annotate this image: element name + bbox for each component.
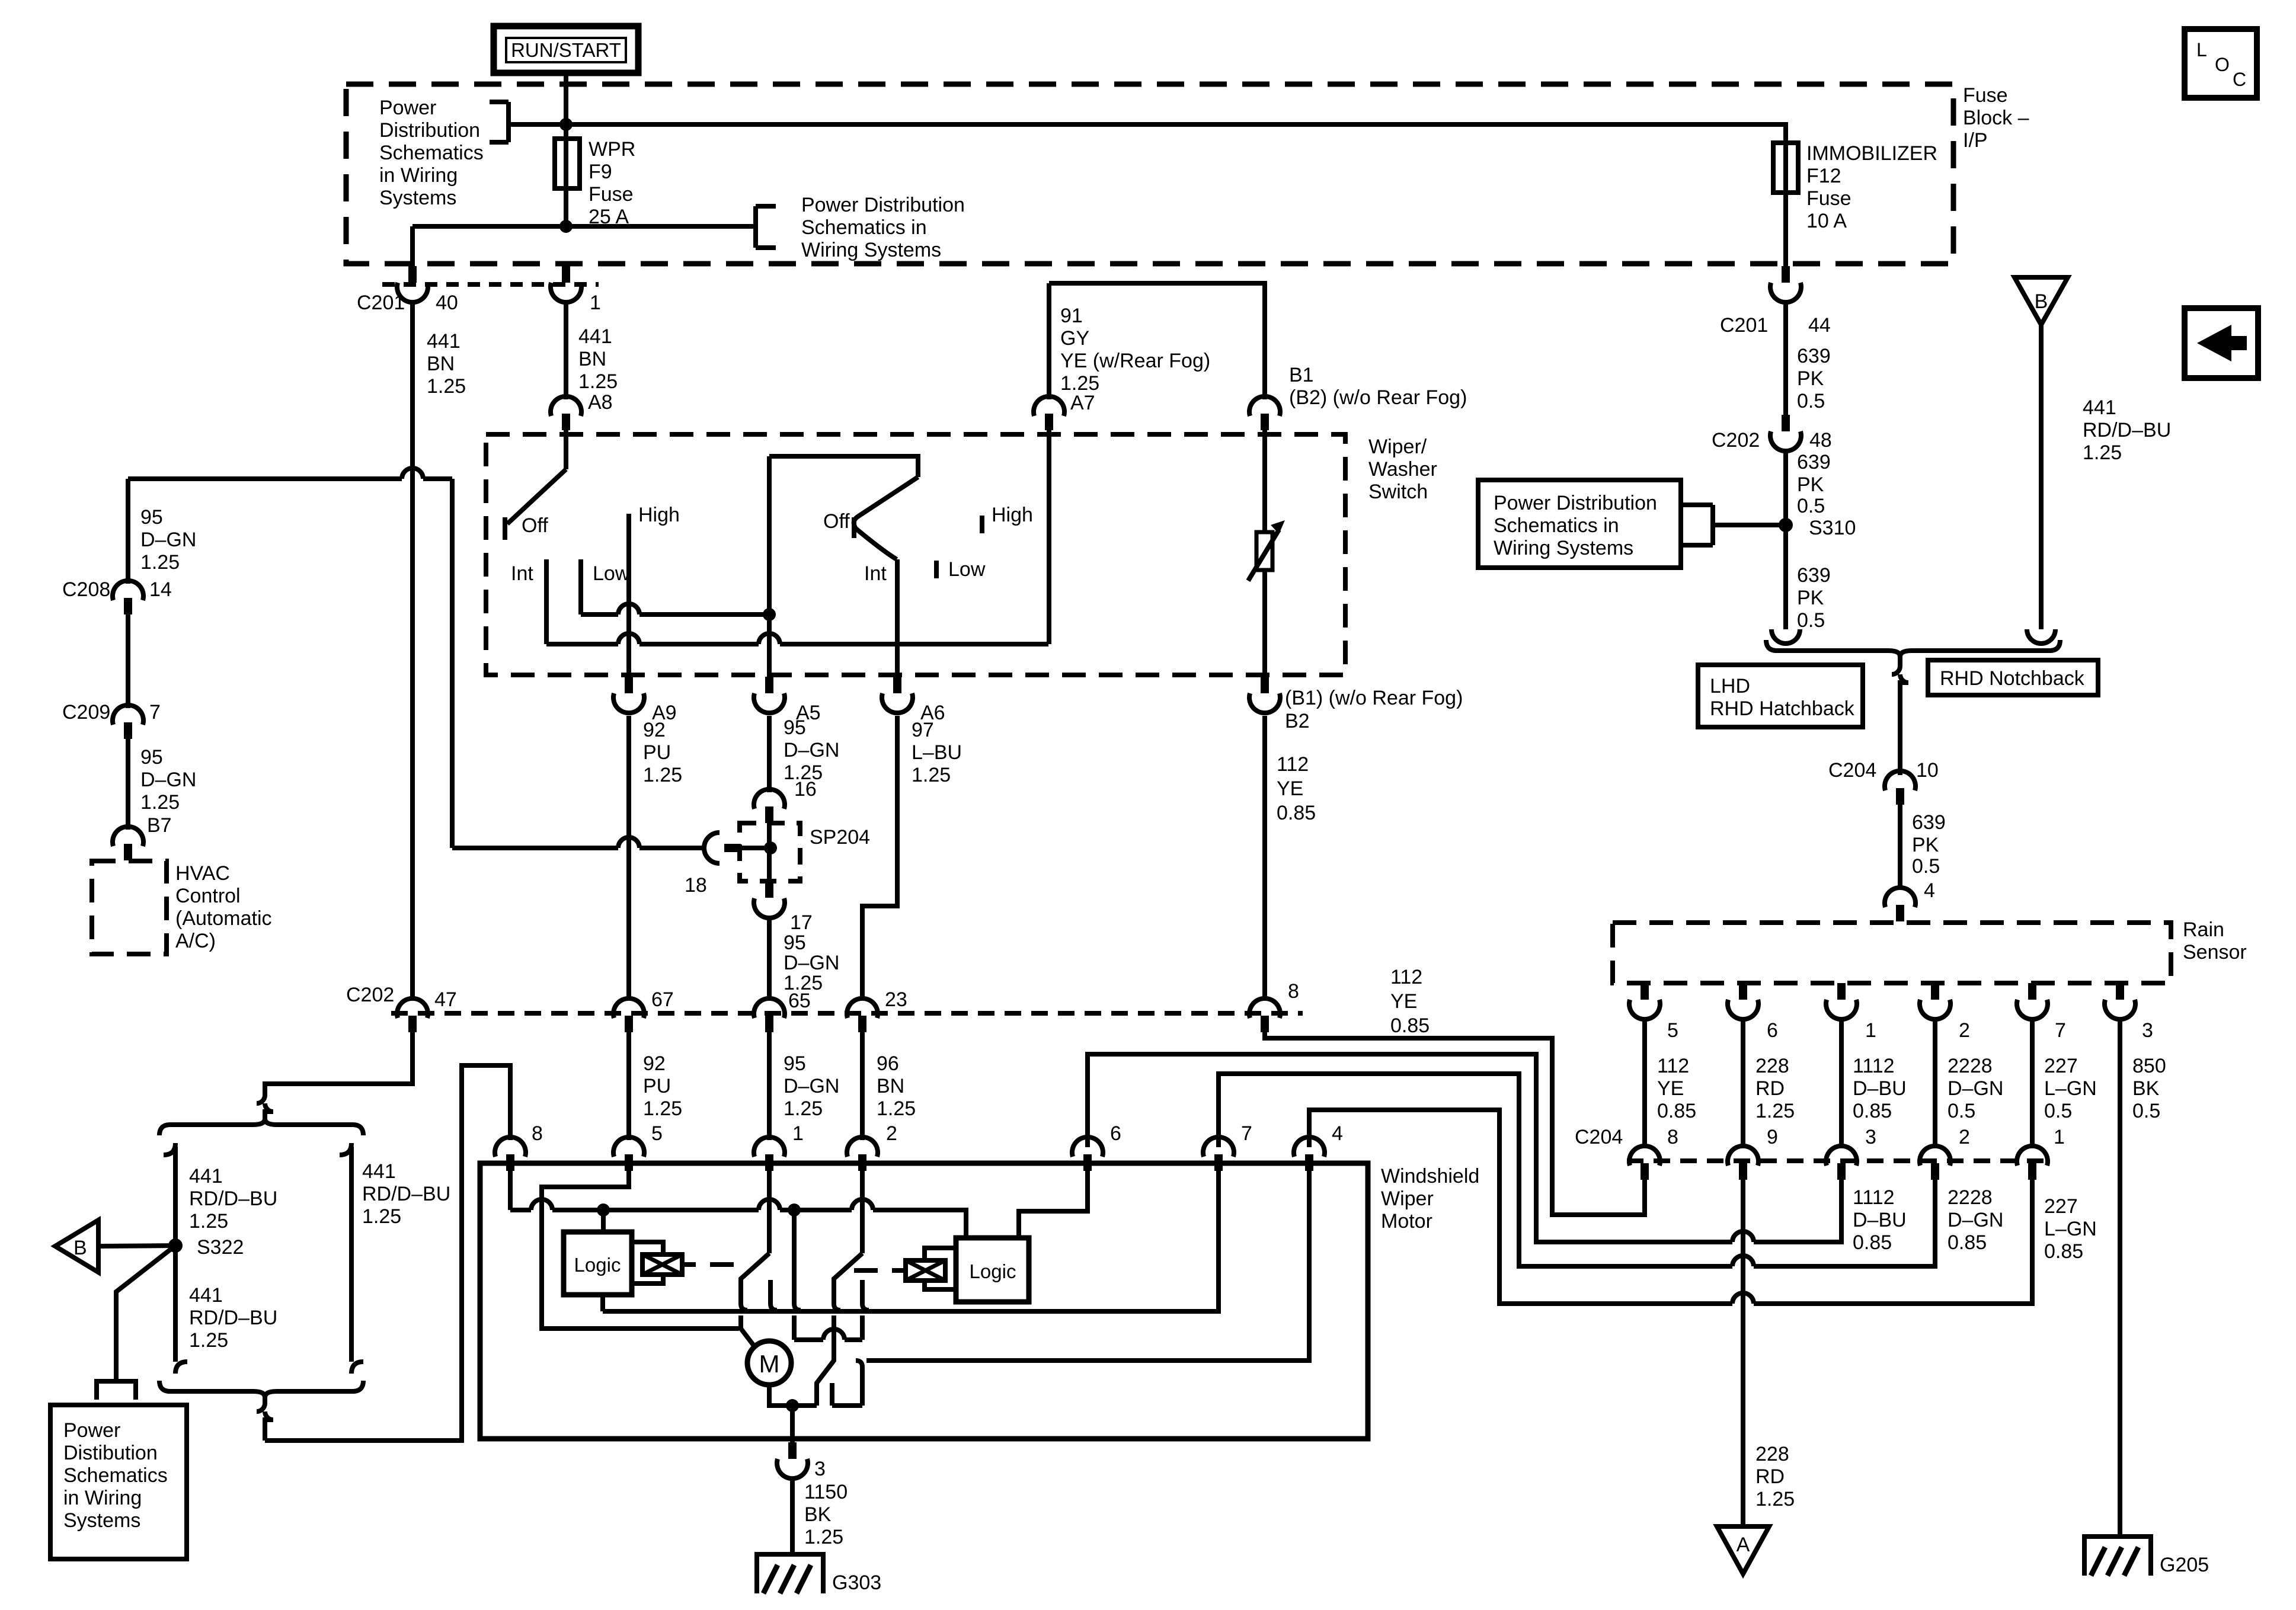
- fuse IMMOBILIZER F12: [1773, 143, 1798, 267]
- solenoid 1 valve: [642, 1254, 696, 1275]
- wire 2228: motor-7 to C204-2: [1219, 1074, 1935, 1266]
- merge curl left: [1771, 629, 1800, 644]
- svg-text:441: 441: [427, 330, 461, 353]
- hop line2 over High line: [618, 633, 639, 644]
- svg-text:228: 228: [1755, 1055, 1789, 1077]
- wire C204-10 to rain sensor 4: [1898, 805, 1902, 888]
- splice SP204 dashed box: [740, 823, 800, 881]
- wire B triangle down: [2039, 325, 2044, 629]
- svg-text:0.5: 0.5: [1797, 609, 1825, 632]
- svg-text:Distribution: Distribution: [379, 119, 480, 142]
- bundle wire right curl bottom: [351, 1362, 363, 1374]
- label 850 BK 0.5: [2132, 1055, 2166, 1122]
- connector C202-65: [754, 998, 785, 1032]
- wire A9 to C202-67: [626, 716, 631, 1000]
- connector C204-9: [1728, 1146, 1758, 1180]
- label 92 PU 1.25 (upper): [643, 719, 682, 786]
- svg-text:2: 2: [1959, 1019, 1970, 1042]
- label 96 BN 1.25: [877, 1052, 916, 1120]
- svg-text:L–GN: L–GN: [2044, 1077, 2097, 1100]
- wire blade1 to motor: [741, 1315, 754, 1346]
- svg-text:L: L: [2196, 39, 2207, 60]
- rheostat (variable resistor): [1248, 520, 1285, 581]
- label 1112 D-BU 0.85 (below row): [1853, 1186, 1907, 1254]
- label 2228 D-GN 0.85 (below row): [1948, 1186, 2003, 1254]
- svg-text:2228: 2228: [1948, 1186, 1993, 1209]
- power distribution reference box (S310): [1478, 480, 1681, 568]
- svg-text:Fuse: Fuse: [1963, 84, 2008, 107]
- junction dot line1 at A5 pole: [763, 608, 776, 621]
- svg-text:3: 3: [814, 1458, 826, 1480]
- connector C202-67: [613, 998, 644, 1032]
- connector C204-3: [1826, 1146, 1857, 1180]
- svg-text:95: 95: [784, 716, 806, 739]
- svg-text:A: A: [1737, 1534, 1750, 1556]
- wire fuse row horizontal to IMMOBILIZER: [509, 124, 1786, 143]
- merge curl right: [2027, 629, 2055, 644]
- contact Low (switch 2): [934, 561, 939, 578]
- wire 16 into SP204: [767, 823, 772, 881]
- park fixed stub 3: [830, 1383, 834, 1406]
- svg-text:227: 227: [2044, 1195, 2078, 1218]
- svg-text:0.85: 0.85: [1948, 1231, 1987, 1254]
- svg-text:Fuse: Fuse: [1806, 187, 1851, 210]
- svg-text:Washer: Washer: [1368, 458, 1437, 481]
- svg-text:2228: 2228: [1948, 1055, 1993, 1077]
- svg-text:1.25: 1.25: [1755, 1488, 1795, 1510]
- svg-text:RD: RD: [1755, 1465, 1785, 1488]
- svg-text:112: 112: [1657, 1055, 1689, 1077]
- wire sensor-3 to G205: [2118, 1017, 2122, 1537]
- connector row C201 (dotted): [382, 282, 599, 287]
- svg-text:Wiring Systems: Wiring Systems: [801, 239, 941, 261]
- svg-text:PK: PK: [1912, 834, 1939, 856]
- svg-text:850: 850: [2132, 1055, 2166, 1077]
- svg-text:1: 1: [590, 292, 601, 314]
- wire S322 diagonal drop: [116, 1246, 175, 1381]
- wire left column down to C208: [126, 479, 130, 584]
- svg-text:Motor: Motor: [1381, 1210, 1432, 1233]
- svg-text:23: 23: [885, 988, 907, 1011]
- wire A7 ubend to B1: [1049, 283, 1265, 644]
- wire sensor-2 to C204-2: [1933, 1017, 1937, 1147]
- windshield wiper motor box: [480, 1163, 1368, 1439]
- svg-text:1: 1: [792, 1122, 804, 1145]
- triangle B (left): [55, 1220, 98, 1272]
- svg-text:PK: PK: [1797, 367, 1824, 390]
- svg-text:17: 17: [790, 911, 813, 934]
- stub bus to Logic1: [601, 1210, 606, 1232]
- svg-text:228: 228: [1755, 1443, 1789, 1465]
- label Power Distribution Schematics in Wiring Systems (S310): [1494, 492, 1657, 559]
- svg-text:Distibution: Distibution: [63, 1442, 158, 1464]
- svg-text:7: 7: [2055, 1019, 2066, 1042]
- svg-text:1150: 1150: [804, 1481, 848, 1503]
- line A common wire: [603, 1171, 1219, 1311]
- breakout curl bottom: [257, 1397, 273, 1441]
- svg-text:BN: BN: [578, 348, 606, 370]
- svg-text:92: 92: [643, 719, 666, 741]
- wire C201-44 to C202-48: [1783, 300, 1788, 415]
- connector C201-44: [1770, 266, 1801, 302]
- junction dot bus-Logic1: [597, 1204, 610, 1217]
- label 441 RD/D-BU 1.25 (B): [2083, 396, 2171, 464]
- connector motor-5: [613, 1137, 644, 1171]
- svg-text:Systems: Systems: [379, 187, 456, 209]
- fuse WPR F9: [555, 124, 580, 226]
- RHD Notchback box: [1928, 660, 2098, 695]
- svg-text:G205: G205: [2160, 1554, 2209, 1576]
- svg-text:Fuse: Fuse: [589, 183, 634, 206]
- wire conn6 interior: [1019, 1171, 1088, 1238]
- svg-text:Off: Off: [522, 514, 548, 537]
- LOC box: [2185, 29, 2257, 98]
- label 228 RD 1.25: [1755, 1055, 1795, 1122]
- svg-text:A/C): A/C): [175, 930, 216, 952]
- wire B2 to C202-8: [1262, 716, 1267, 1000]
- svg-text:C209: C209: [62, 701, 110, 724]
- svg-text:S322: S322: [197, 1236, 244, 1259]
- harness brace (bottom): [159, 1381, 363, 1397]
- solenoid 1 plug arms: [632, 1242, 663, 1283]
- label 639 PK 0.5 (4): [1912, 811, 1946, 878]
- svg-text:RD: RD: [1755, 1077, 1785, 1100]
- svg-text:Power: Power: [379, 97, 436, 119]
- label 95 D-GN 1.25 (A5): [784, 716, 839, 784]
- svg-text:Low: Low: [593, 562, 630, 585]
- back-arrow box: [2185, 308, 2258, 378]
- svg-text:95: 95: [140, 746, 163, 769]
- wire conn2 into box: [860, 1171, 865, 1253]
- label 95 D-GN 1.25 (lower): [784, 1052, 839, 1120]
- wire 228 RD: C204-9 to A triangle: [1741, 1180, 1745, 1526]
- svg-text:Windshield: Windshield: [1381, 1165, 1479, 1188]
- svg-text:1.25: 1.25: [1755, 1100, 1795, 1122]
- hop 2228 over 228 wire: [1732, 1256, 1754, 1266]
- node RUN/START box: [494, 26, 638, 73]
- svg-text:A7: A7: [1070, 392, 1095, 414]
- connector 18 (sideways): [704, 833, 741, 863]
- connector sensor-5: [1629, 983, 1660, 1019]
- svg-text:2: 2: [886, 1122, 897, 1145]
- label 639 PK 0.5 (1): [1797, 345, 1831, 412]
- wire C209 to B7: [126, 739, 130, 830]
- solenoid 2 plug arms: [925, 1248, 956, 1289]
- half-plug to power distribution reference: [97, 1381, 136, 1400]
- svg-text:96: 96: [877, 1052, 899, 1075]
- wire C201-40 down to C202-47: [410, 300, 415, 1000]
- junction dot SP204: [764, 841, 777, 854]
- label 92 PU 1.25 (lower): [643, 1052, 682, 1120]
- svg-text:B: B: [2035, 290, 2048, 313]
- svg-text:M: M: [759, 1350, 780, 1378]
- junction dot ground: [786, 1399, 799, 1412]
- connector sensor-3: [2105, 983, 2135, 1019]
- junction dot at WPR top: [559, 118, 573, 131]
- hop line1 over High line: [618, 604, 639, 614]
- connector B2: [1249, 677, 1280, 713]
- wire sensor-5 to C204-8: [1642, 1017, 1647, 1147]
- contact Off (switch 1): [503, 517, 507, 540]
- label 227 L-GN 0.5: [2044, 1055, 2097, 1122]
- svg-text:0.85: 0.85: [1390, 1014, 1430, 1037]
- svg-text:O: O: [2215, 54, 2230, 75]
- wire branch y=382 to C201-40 and right bracket: [412, 226, 756, 267]
- dashed link 1: [710, 1262, 734, 1267]
- park link horizontal: [794, 1337, 862, 1342]
- ground G205: [2084, 1537, 2209, 1576]
- svg-text:Power: Power: [63, 1419, 120, 1442]
- junction dot bus-riser: [788, 1204, 801, 1217]
- breakout curl top: [257, 1095, 273, 1119]
- svg-text:Low: Low: [948, 558, 986, 581]
- connector motor-1: [754, 1137, 785, 1171]
- wire C208 to C209: [126, 614, 130, 708]
- svg-text:D–BU: D–BU: [1853, 1209, 1907, 1231]
- switch 2 blade (washer/int): [854, 477, 918, 559]
- svg-text:F9: F9: [589, 161, 612, 183]
- svg-text:0.85: 0.85: [1657, 1100, 1696, 1122]
- svg-text:Control: Control: [175, 885, 241, 907]
- svg-text:Block –: Block –: [1963, 107, 2029, 129]
- svg-text:High: High: [992, 504, 1033, 526]
- label IMMOBILIZER F12 Fuse 10 A: [1806, 142, 1937, 232]
- contact High / A9 line: [626, 514, 631, 680]
- svg-text:Schematics in: Schematics in: [801, 216, 927, 239]
- svg-text:IMMOBILIZER: IMMOBILIZER: [1806, 142, 1937, 165]
- svg-text:95: 95: [784, 932, 806, 954]
- wire 67 to motor 5: [626, 1032, 631, 1140]
- svg-text:HVAC: HVAC: [175, 862, 230, 885]
- connector C204-8: [1629, 1146, 1660, 1180]
- wire 23 to motor 2: [860, 1032, 865, 1140]
- hop bus over conn5 reroute: [531, 1199, 552, 1210]
- contact Off (switch 2): [852, 517, 856, 538]
- label 441 RD/D-BU 1.25 (left): [189, 1165, 277, 1233]
- svg-text:639: 639: [1797, 564, 1831, 587]
- harness brace (top): [159, 1119, 363, 1135]
- connector A9: [613, 677, 644, 713]
- bracket for mid reference: [756, 206, 776, 248]
- label 95 D-GN 1.25 (2): [140, 746, 196, 814]
- svg-text:Schematics: Schematics: [63, 1464, 168, 1487]
- svg-text:F12: F12: [1806, 165, 1841, 187]
- Logic box 2: [956, 1238, 1029, 1302]
- svg-text:(Automatic: (Automatic: [175, 907, 272, 930]
- svg-text:112: 112: [1390, 966, 1422, 988]
- svg-text:7: 7: [1241, 1122, 1252, 1145]
- svg-text:112: 112: [1277, 753, 1309, 776]
- svg-text:D–GN: D–GN: [784, 739, 839, 761]
- connector A8: [551, 396, 581, 430]
- svg-text:441: 441: [578, 325, 612, 348]
- bundle wire right curl top: [340, 1143, 351, 1155]
- wire bracket to S310: [1713, 523, 1786, 527]
- hop 18-wire over A9 wire: [618, 837, 639, 848]
- wire conn5 reroute to motor: [542, 1171, 739, 1329]
- svg-text:8: 8: [532, 1122, 543, 1145]
- svg-text:D–GN: D–GN: [140, 529, 196, 551]
- svg-text:639: 639: [1797, 451, 1831, 473]
- svg-text:WPR: WPR: [589, 138, 635, 161]
- label Power Distribution Schematics in Wiring Systems (top-left): [379, 97, 484, 209]
- solenoid 2 valve: [892, 1260, 945, 1281]
- svg-text:1.25: 1.25: [140, 551, 180, 574]
- connector C204-10: [1885, 771, 1916, 805]
- svg-text:8: 8: [1288, 980, 1299, 1003]
- connector C201-40: [397, 266, 428, 302]
- svg-text:in Wiring: in Wiring: [63, 1487, 142, 1509]
- svg-text:6: 6: [1110, 1122, 1121, 1145]
- svg-text:B: B: [73, 1237, 87, 1259]
- svg-text:1.25: 1.25: [784, 1097, 823, 1120]
- connector B7: [113, 827, 143, 860]
- wire 18 branch horizontal: [452, 846, 706, 850]
- wire conn8 to bus: [508, 1171, 513, 1210]
- wire Int to A7 leg (line2): [546, 642, 1048, 646]
- svg-text:RD/D–BU: RD/D–BU: [362, 1183, 450, 1205]
- connector motor-3 (ground): [777, 1442, 808, 1478]
- dashed link 2: [854, 1268, 878, 1273]
- contact Int / A6 line: [895, 559, 900, 680]
- contact Int (switch 1): [544, 559, 549, 644]
- svg-text:227: 227: [2044, 1055, 2078, 1077]
- svg-text:9: 9: [1767, 1126, 1778, 1148]
- label 112 YE 0.85 (B2): [1277, 753, 1316, 824]
- wire A5 to splice 16: [767, 716, 772, 792]
- wire motor bottom to ground junction: [769, 1385, 862, 1406]
- wire RUN/START to fuse block: [564, 73, 568, 124]
- connector sensor-1: [1826, 983, 1857, 1019]
- svg-text:14: 14: [149, 578, 172, 601]
- svg-text:PK: PK: [1797, 587, 1824, 609]
- svg-text:639: 639: [1912, 811, 1946, 834]
- svg-text:92: 92: [643, 1052, 666, 1075]
- label Power Distribution Schematics in Wiring Systems (mid): [801, 194, 965, 261]
- wiper/washer switch dashed box: [486, 434, 1345, 675]
- label 441 RD/D-BU 1.25 (below S322): [189, 1284, 277, 1352]
- wire x=763 down from y=808 to 18-splice feed: [450, 479, 455, 848]
- bundle wire right: [349, 1147, 354, 1362]
- connector C202-47: [397, 998, 428, 1032]
- svg-text:Int: Int: [864, 562, 887, 585]
- wire A5 pole down: [767, 456, 772, 680]
- svg-text:RUN/START: RUN/START: [511, 39, 621, 61]
- svg-text:BN: BN: [877, 1075, 904, 1097]
- svg-text:Logic: Logic: [970, 1260, 1016, 1282]
- svg-text:0.5: 0.5: [2044, 1100, 2072, 1122]
- svg-text:441: 441: [189, 1284, 223, 1307]
- svg-text:0.5: 0.5: [1797, 495, 1825, 517]
- svg-text:Systems: Systems: [63, 1509, 140, 1532]
- svg-text:40: 40: [436, 292, 458, 314]
- merge bracket: [1766, 640, 2060, 657]
- svg-text:48: 48: [1809, 429, 1832, 452]
- wire conn1 into box: [767, 1171, 772, 1253]
- HVAC Control dashed box: [92, 861, 167, 954]
- park fixed contact to conn4 line: [856, 1361, 862, 1406]
- svg-text:B7: B7: [147, 814, 172, 837]
- switch blade 2 (high relay): [834, 1253, 862, 1340]
- wire B triangle to S322: [98, 1246, 175, 1246]
- svg-text:441: 441: [189, 1165, 223, 1188]
- svg-text:PU: PU: [643, 1075, 671, 1097]
- switch 2 pole top: [769, 456, 918, 477]
- svg-text:C208: C208: [62, 578, 110, 601]
- connector A6: [882, 677, 913, 713]
- connector motor-2: [847, 1137, 878, 1171]
- svg-text:10: 10: [1916, 759, 1939, 782]
- wire bundle to motor connector 8: [265, 1065, 510, 1441]
- svg-text:YE: YE: [1390, 990, 1417, 1013]
- label 97 L-BU 1.25: [912, 719, 962, 786]
- svg-text:67: 67: [651, 988, 674, 1011]
- svg-text:0.85: 0.85: [1853, 1231, 1892, 1254]
- contact riser from bus to park: [794, 1210, 801, 1340]
- wire C202-47 branch across to left column: [128, 476, 452, 481]
- label 91 GY YE 1.25: [1060, 305, 1210, 395]
- label 95 D-GN 1.25 (1): [140, 506, 196, 574]
- wire Logic1 to line A: [600, 1295, 605, 1311]
- bus wire y=2042: [510, 1210, 966, 1238]
- connector C204-1: [2017, 1146, 2048, 1180]
- svg-text:(B1) (w/o Rear Fog): (B1) (w/o Rear Fog): [1285, 687, 1463, 709]
- connector row C204 (dashed): [1627, 1158, 2054, 1163]
- bundle wire left curl bottom: [175, 1351, 187, 1374]
- fixed contact stub (blade1): [770, 1280, 777, 1310]
- svg-text:SP204: SP204: [810, 826, 870, 849]
- label 2228 D-GN 0.5: [1948, 1055, 2003, 1122]
- connector sensor-6: [1728, 983, 1758, 1019]
- svg-text:Schematics: Schematics: [379, 142, 484, 164]
- svg-text:Switch: Switch: [1368, 481, 1428, 503]
- svg-text:Wiper: Wiper: [1381, 1188, 1434, 1210]
- svg-text:I/P: I/P: [1963, 129, 1988, 152]
- svg-text:(B2) (w/o Rear Fog): (B2) (w/o Rear Fog): [1289, 386, 1467, 409]
- svg-text:L–GN: L–GN: [2044, 1218, 2097, 1240]
- junction dot at WPR bottom: [559, 220, 573, 233]
- svg-text:A8: A8: [588, 391, 613, 414]
- svg-text:Off: Off: [823, 510, 850, 533]
- svg-text:S310: S310: [1809, 517, 1856, 539]
- svg-text:G303: G303: [832, 1571, 881, 1594]
- wire A8 into switch: [564, 430, 568, 469]
- svg-text:8: 8: [1667, 1126, 1678, 1148]
- svg-text:0.85: 0.85: [1277, 802, 1316, 824]
- connector C208-14: [113, 581, 143, 614]
- label Rain Sensor: [2183, 918, 2247, 964]
- svg-text:1112: 1112: [1853, 1055, 1895, 1077]
- park switch blade 3: [817, 1340, 834, 1406]
- wire A6 jog to C202-23: [862, 716, 897, 1000]
- fixed contact stub (blade2): [862, 1280, 869, 1340]
- svg-text:0.5: 0.5: [1912, 855, 1940, 878]
- label Fuse Block - I/P: [1963, 84, 2029, 152]
- svg-text:91: 91: [1060, 305, 1083, 327]
- connector C209-7: [113, 705, 143, 739]
- wire rheostat to B2: [1262, 570, 1267, 680]
- svg-text:Logic: Logic: [574, 1254, 621, 1276]
- svg-text:16: 16: [794, 778, 817, 801]
- svg-text:44: 44: [1808, 314, 1831, 337]
- svg-text:RHD Hatchback: RHD Hatchback: [1710, 697, 1855, 720]
- connector C201-1: [551, 266, 581, 302]
- svg-text:D–GN: D–GN: [784, 1075, 839, 1097]
- svg-text:0.85: 0.85: [2044, 1240, 2083, 1263]
- label 1112 D-BU 0.85: [1853, 1055, 1907, 1122]
- svg-text:0.5: 0.5: [1797, 390, 1825, 412]
- svg-text:Schematics in: Schematics in: [1494, 514, 1619, 537]
